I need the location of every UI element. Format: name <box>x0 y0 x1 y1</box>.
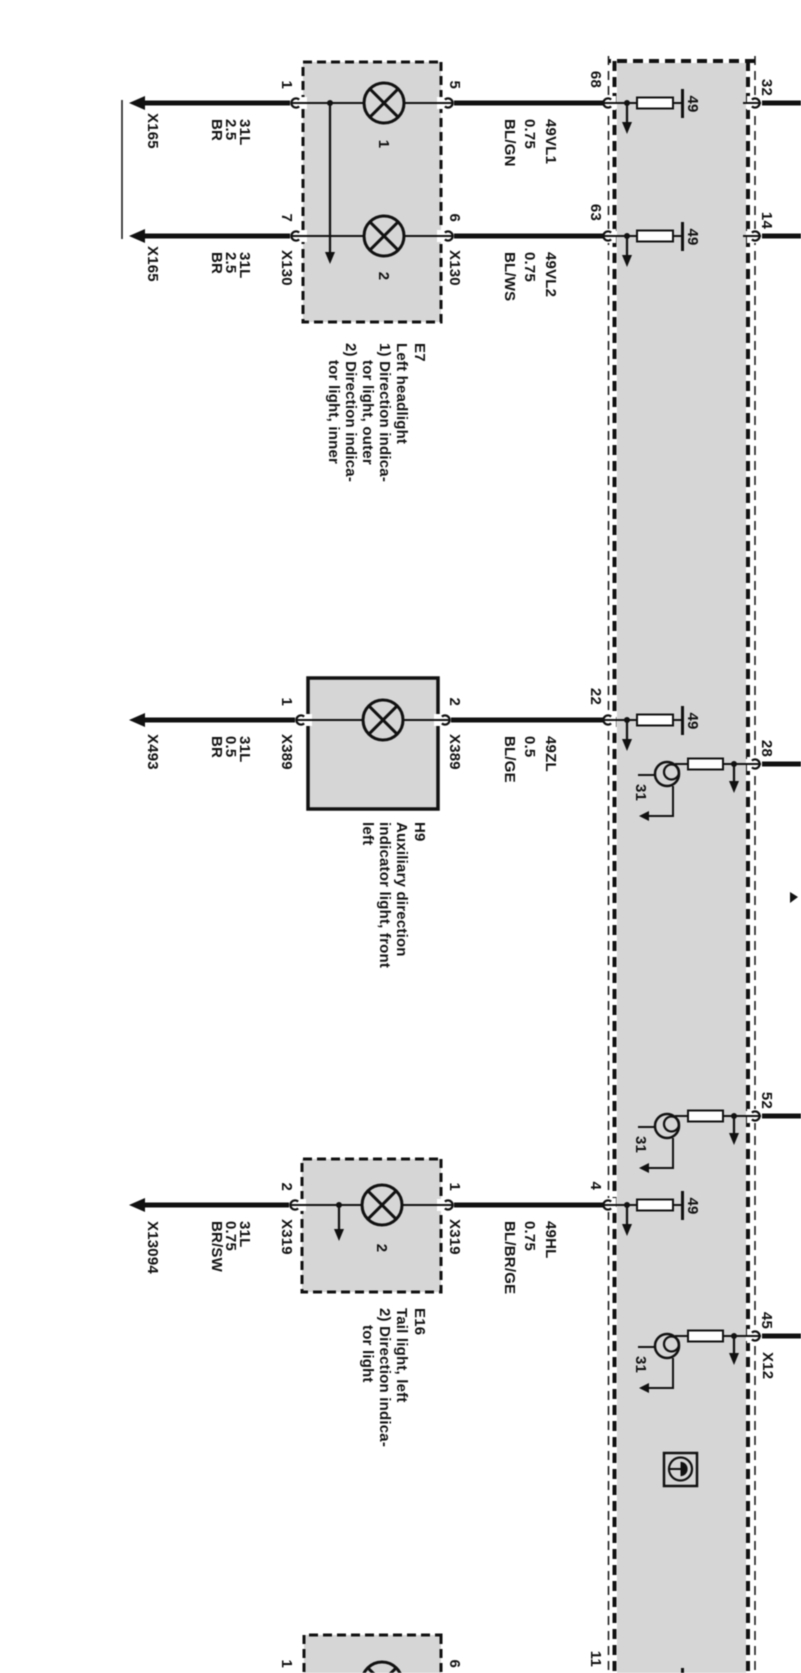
svg-text:X493: X493 <box>144 734 161 770</box>
svg-text:left: left <box>359 822 376 845</box>
svg-text:E7: E7 <box>411 343 428 362</box>
svg-text:49: 49 <box>684 228 701 245</box>
svg-text:11: 11 <box>587 1651 604 1667</box>
svg-text:22: 22 <box>587 688 604 705</box>
svg-text:2) Direction indica-: 2) Direction indica- <box>376 1308 393 1447</box>
svg-text:X130: X130 <box>278 250 295 286</box>
svg-text:0.5: 0.5 <box>521 736 538 757</box>
svg-text:1: 1 <box>446 1182 463 1191</box>
svg-text:14: 14 <box>758 212 775 230</box>
svg-text:X13094: X13094 <box>144 1221 161 1274</box>
svg-text:0.75: 0.75 <box>521 119 538 149</box>
svg-text:H9: H9 <box>411 822 428 842</box>
svg-text:2: 2 <box>373 1244 390 1253</box>
svg-text:X165: X165 <box>144 113 161 149</box>
svg-text:31: 31 <box>632 1136 649 1153</box>
svg-text:Left headlight: Left headlight <box>393 343 410 444</box>
svg-text:X12: X12 <box>759 1352 776 1379</box>
svg-text:BR: BR <box>208 252 225 274</box>
svg-text:Tail light, left: Tail light, left <box>393 1308 410 1403</box>
svg-text:52: 52 <box>758 1092 775 1109</box>
svg-text:0.75: 0.75 <box>521 1221 538 1251</box>
svg-text:49ZL: 49ZL <box>542 736 559 772</box>
svg-text:X165: X165 <box>144 246 161 282</box>
svg-text:0.75: 0.75 <box>521 252 538 282</box>
svg-text:X389: X389 <box>446 734 463 770</box>
svg-text:45: 45 <box>758 1312 775 1329</box>
svg-text:49VL1: 49VL1 <box>542 119 559 164</box>
svg-text:BL/GN: BL/GN <box>501 119 518 167</box>
svg-text:BL/GE: BL/GE <box>501 736 518 783</box>
svg-text:1: 1 <box>278 697 295 706</box>
svg-text:E16: E16 <box>411 1308 428 1335</box>
svg-text:49: 49 <box>684 95 701 112</box>
svg-text:2: 2 <box>278 1182 295 1191</box>
svg-text:indicator light, front: indicator light, front <box>376 822 393 968</box>
svg-text:tor light, outer: tor light, outer <box>359 360 376 465</box>
svg-text:6: 6 <box>446 213 463 222</box>
svg-text:2: 2 <box>446 697 463 706</box>
svg-text:4: 4 <box>587 1181 604 1190</box>
svg-text:2) Direction indica-: 2) Direction indica- <box>342 343 359 482</box>
svg-text:X319: X319 <box>446 1219 463 1255</box>
svg-text:6: 6 <box>446 1659 463 1668</box>
svg-text:32: 32 <box>758 79 775 96</box>
svg-text:BR/SW: BR/SW <box>208 1221 225 1273</box>
svg-text:tor light: tor light <box>359 1325 376 1383</box>
svg-text:1: 1 <box>278 80 295 89</box>
svg-text:5: 5 <box>446 80 463 89</box>
svg-text:BR: BR <box>208 736 225 758</box>
svg-text:31: 31 <box>632 1356 649 1373</box>
svg-text:Auxiliary direction: Auxiliary direction <box>393 822 410 957</box>
svg-text:2: 2 <box>375 272 392 281</box>
svg-text:BL/BR/GE: BL/BR/GE <box>501 1221 518 1294</box>
svg-text:68: 68 <box>587 71 604 88</box>
svg-text:BR: BR <box>208 119 225 141</box>
svg-text:X319: X319 <box>278 1219 295 1255</box>
svg-text:X130: X130 <box>446 250 463 286</box>
svg-text:BL/WS: BL/WS <box>501 252 518 301</box>
svg-text:tor light, inner: tor light, inner <box>325 360 342 464</box>
svg-text:1) Direction indica-: 1) Direction indica- <box>376 343 393 482</box>
svg-text:63: 63 <box>587 204 604 221</box>
svg-text:1: 1 <box>278 1659 295 1668</box>
svg-text:49: 49 <box>684 1197 701 1214</box>
svg-text:31: 31 <box>632 784 649 801</box>
svg-text:49VL2: 49VL2 <box>542 252 559 297</box>
svg-text:49HL: 49HL <box>542 1221 559 1258</box>
svg-text:49: 49 <box>684 712 701 729</box>
svg-text:7: 7 <box>278 213 295 222</box>
svg-text:1: 1 <box>375 140 392 149</box>
svg-text:28: 28 <box>758 740 775 757</box>
svg-text:X389: X389 <box>278 734 295 770</box>
